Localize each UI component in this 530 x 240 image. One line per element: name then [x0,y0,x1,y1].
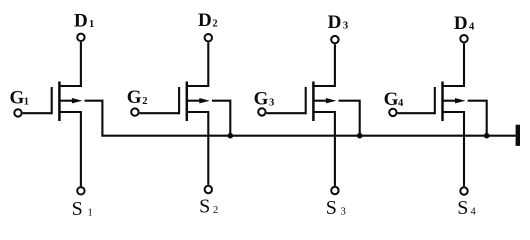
svg-text:D: D [454,13,468,34]
wire Q1 bulk down to substrate rail [85,101,103,136]
Q2 bulk lead with arrow [187,98,210,103]
terminal D1 [77,34,84,41]
terminal D4 [460,35,467,42]
label G1 [10,88,29,109]
label D2 [198,10,218,31]
label S4 [457,197,476,219]
junction node Q3 bulk to rail [357,133,363,139]
label G4 [384,89,404,110]
transistor Q1 (MOSFET) [52,42,103,186]
svg-text:D: D [74,10,88,31]
label G3 [254,88,275,109]
wire Q1 drain stub up to D1 [59,42,81,86]
wire Q2 drain stub up to D2 [187,42,209,86]
transistor Q3 (MOSFET) [306,44,360,186]
termination bar (substrate contact) [516,125,520,146]
wire Q2 bulk down to substrate rail [212,101,230,136]
transistor Q4 (MOSFET) [435,43,487,186]
svg-text:S: S [72,198,83,220]
svg-text:3: 3 [341,207,346,218]
wire gate G1 [23,112,52,114]
svg-text:D: D [198,10,212,31]
terminal G2 [131,108,138,115]
label S2 [199,196,218,218]
wire Q4 bulk down to substrate rail [468,101,487,136]
wire Q4 source stub down to S4 [443,112,465,186]
label G2 [127,87,148,108]
terminal S2 [205,186,212,193]
svg-text:1: 1 [89,19,94,30]
terminal G1 [14,109,21,116]
Q1 gate plate [51,87,53,114]
svg-text:2: 2 [213,205,218,216]
Q4 gate plate [434,87,436,114]
junction node Q2 bulk to rail [228,133,234,139]
Q4 bulk lead with arrow [443,98,466,103]
terminal S3 [331,187,338,194]
Q2 gate plate [178,87,180,114]
svg-text:3: 3 [269,97,274,108]
wire Q3 source stub down to S3 [313,112,335,186]
Q4 channel bar [441,82,444,122]
wire gate G4 [398,112,435,114]
wire Q3 drain stub up to D3 [313,44,335,86]
wire Q4 drain stub up to D4 [443,43,465,86]
terminal G3 [258,108,265,115]
wire substrate rail [101,135,515,137]
wire gate G3 [267,112,306,114]
Q1 channel bar [58,82,61,122]
label S1 [72,198,93,220]
label D3 [328,12,349,33]
svg-text:G: G [10,88,25,109]
terminal S4 [460,187,467,194]
svg-text:4: 4 [469,22,475,33]
svg-text:G: G [384,89,399,110]
svg-text:G: G [254,88,269,109]
Q2 channel bar [186,82,189,122]
svg-text:1: 1 [88,207,93,218]
svg-text:4: 4 [471,206,477,217]
svg-text:S: S [457,197,468,219]
label S3 [326,197,346,219]
svg-text:3: 3 [343,20,348,31]
Q1 bulk lead with arrow [59,98,82,103]
terminal S1 [77,187,84,194]
svg-text:2: 2 [142,96,147,107]
svg-text:D: D [328,12,342,33]
terminal D2 [205,34,212,41]
svg-text:S: S [199,196,210,218]
junction node Q4 bulk to rail [484,133,490,139]
wire Q1 source stub down to S1 [59,112,81,186]
wire gate G2 [140,112,180,114]
svg-text:4: 4 [398,98,404,109]
terminal G4 [389,109,396,116]
label D1 [74,10,94,31]
Q3 gate plate [305,87,307,114]
svg-text:1: 1 [24,97,29,108]
Q3 channel bar [312,82,315,122]
wire Q3 bulk down to substrate rail [339,101,360,136]
label D4 [454,13,475,34]
transistor Q2 (MOSFET) [179,42,230,185]
svg-text:G: G [127,87,142,108]
svg-text:S: S [326,197,337,219]
terminal D3 [331,36,338,43]
wire Q2 source stub down to S2 [187,112,209,185]
svg-text:2: 2 [212,19,217,30]
Q3 bulk lead with arrow [313,98,336,103]
